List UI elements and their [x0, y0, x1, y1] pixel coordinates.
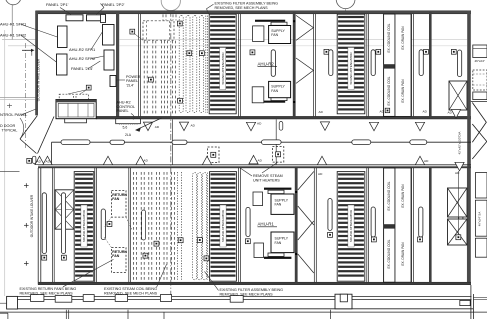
wall stub right [460, 300, 470, 305]
power panel 2L4 box [110, 76, 116, 87]
column bubble C [336, 0, 355, 9]
filter slot columns top [179, 16, 183, 113]
exterior wall band bottom line [15, 308, 473, 310]
equipment tag box 22 [459, 238, 464, 243]
intake slot 1 [42, 193, 46, 254]
AD triangle corridor 4 [136, 156, 149, 165]
svg-text:EX. COOLING COIL: EX. COOLING COIL [387, 76, 391, 105]
svg-text:2LA: 2LA [125, 133, 132, 137]
svg-text:PANEL '2P2': PANEL '2P2' [102, 2, 125, 7]
column bubble B [161, 0, 180, 11]
wall pier 1 [31, 295, 44, 302]
svg-text:EX. COOLING COIL: EX. COOLING COIL [387, 239, 391, 268]
svg-text:AD: AD [144, 158, 149, 162]
damper slot A bottom [328, 199, 332, 231]
svg-text:AD: AD [424, 159, 429, 163]
filter slot columns bottom [193, 173, 197, 280]
svg-text:FAN: FAN [112, 254, 119, 258]
supply fan SF-2a housing [269, 26, 291, 44]
equipment tag box 1 [86, 85, 91, 90]
svg-text:SOUND ATTENUATOR: SOUND ATTENUATOR [349, 209, 353, 242]
sound attenuator SA-top-1 [209, 14, 236, 114]
inlet slot AHU-R1 [246, 207, 250, 236]
corridor slot 5 [352, 140, 371, 145]
housekeeping pad table [56, 100, 96, 119]
mixing plenum xbox 1 [448, 188, 468, 217]
equipment tag box 21 [418, 237, 423, 242]
corridor slot 1 [61, 140, 90, 145]
plenum divider line [138, 14, 140, 116]
grid line vertical left [4, 30, 6, 296]
AD triangle corridor 2 [43, 156, 52, 165]
panel 2P2 box [87, 15, 106, 21]
svg-text:UNIT HEATERS: UNIT HEATERS [253, 179, 280, 183]
top unit top wall [36, 11, 472, 14]
svg-text:FAN: FAN [271, 89, 278, 93]
small slot corridor-left [33, 156, 36, 163]
svg-text:AHU-R2: AHU-R2 [117, 100, 131, 104]
svg-text:AD: AD [423, 109, 428, 113]
bottom unit left wall [37, 168, 39, 285]
divider after attenuator2 top [366, 14, 368, 116]
control panel strip below wall [116, 119, 141, 124]
column line below band 1 [65, 310, 67, 319]
wall pier 3 [83, 295, 94, 302]
fan discharge cone 2b [296, 58, 313, 83]
svg-text:SOUND ATTENUATOR: SOUND ATTENUATOR [82, 209, 86, 242]
supply fan SF-2b shaft bar [255, 101, 285, 103]
divider after fans top [313, 14, 315, 116]
supply fan SF-2a motor [271, 22, 287, 25]
svg-text:PANEL: PANEL [126, 79, 138, 83]
AD triangle 3 [246, 122, 262, 131]
svg-text:EX. DRAIN PAN: EX. DRAIN PAN [401, 184, 405, 208]
divider after fans bottom [313, 168, 315, 282]
fan discharge cone 2a [296, 15, 313, 40]
svg-text:NTROL PANEL: NTROL PANEL [0, 112, 28, 117]
svg-text:EXISTING STEAM COIL BEING: EXISTING STEAM COIL BEING [104, 287, 157, 291]
equipment tag box 6 [250, 50, 255, 55]
AD triangle 2 [179, 122, 195, 131]
svg-text:AD: AD [37, 159, 42, 163]
sound attenuator SA-bot-3 [337, 172, 365, 282]
mixing plenum xbox 2 [448, 219, 468, 245]
column crossing line 1 [172, 119, 174, 164]
filter dashed columns top-left [143, 41, 145, 114]
column line below band 4 [330, 310, 332, 319]
damper slot C top [419, 50, 423, 76]
return fan RF-1 dashed [112, 191, 127, 218]
mech room door leaf 2 [20, 139, 37, 154]
column crossing line 2 [275, 119, 277, 164]
equipment tag box 10 [451, 49, 456, 54]
cooling coil column bottom [384, 168, 395, 282]
steam unit heater 1 dashed [208, 147, 219, 163]
supply fan SF-2a inlet box [253, 26, 264, 42]
svg-text:EX. DRAIN PAN: EX. DRAIN PAN [401, 79, 405, 103]
airflow arrow upper [22, 49, 31, 51]
svg-text:'2L4': '2L4' [126, 84, 134, 88]
column bubble A [5, 0, 21, 5]
equipment tag box 9 [424, 49, 429, 54]
divider after SA-bot-1 [94, 168, 96, 282]
center wall right section top [429, 12, 432, 116]
starter box AHU-R1 SFR2 [57, 54, 68, 75]
fan discharge cone 1a [298, 172, 314, 191]
equipment tag box 19 [328, 232, 333, 237]
starter box AHU-R2 SFR2 [104, 50, 114, 70]
AD triangle 5 [369, 109, 384, 131]
svg-text:AD: AD [319, 110, 324, 114]
wall pier 6 [230, 296, 243, 303]
edge stub line left [0, 170, 20, 172]
AD triangle corridor 8 [415, 156, 429, 165]
filter slot dotted edge [205, 16, 207, 113]
starter box AHU-R2 SFR1 [103, 25, 115, 46]
column line C stub [345, 9, 347, 14]
column line below band 2 [127, 310, 129, 319]
supply fan SF-1a shaft bar [264, 188, 291, 190]
equipment tag box 3 [130, 29, 135, 34]
corridor slot 6 [410, 140, 427, 145]
starter box AHU-R1 SFR1 [58, 26, 68, 48]
intake damper assembly [55, 190, 74, 229]
corridor slot 4 [262, 140, 282, 145]
divider intake [51, 168, 53, 282]
outside air louver 2 [475, 200, 487, 236]
equipment tag box 7 [324, 49, 329, 54]
svg-text:AD: AD [448, 111, 453, 115]
AD triangle corridor 5 [202, 156, 211, 165]
corridor top line [52, 141, 472, 143]
return fan slot [101, 209, 105, 240]
equipment tag box 4b [177, 21, 182, 26]
svg-text:AHU-R1 SFR1: AHU-R1 SFR1 [0, 21, 27, 26]
svg-text:AD: AD [46, 159, 51, 163]
column line A2 dashed [24, 43, 26, 150]
equipment tag box 17b [204, 256, 209, 261]
equipment tag box 15 [154, 241, 159, 246]
svg-text:FAN: FAN [271, 33, 278, 37]
fan discharge cone 1b [298, 221, 314, 240]
svg-text:EXISTING FILTER ASSEMBLY BEING: EXISTING FILTER ASSEMBLY BEING [220, 288, 284, 292]
svg-text:46"x24" SA: 46"x24" SA [478, 212, 482, 227]
svg-text:AHU-R2: AHU-R2 [258, 61, 275, 66]
centerline cross 1 [24, 185, 29, 187]
svg-text:FAN: FAN [275, 241, 282, 245]
starter box small top [101, 15, 106, 23]
svg-text:PANEL '2P1': PANEL '2P1' [46, 2, 69, 7]
AD triangle corridor 6 [249, 155, 263, 164]
pad lower step [65, 119, 87, 123]
outside air louver 1 [475, 173, 487, 198]
fan bulkhead bottom unit [295, 168, 298, 282]
exterior wall band second line [15, 299, 472, 301]
steam area slot [142, 210, 146, 240]
outside air louver 3 [475, 238, 487, 257]
supply fan SF-1b housing [271, 232, 294, 253]
svg-text:PANEL '2L4': PANEL '2L4' [71, 66, 93, 71]
svg-text:SOUND ATTENUATOR: SOUND ATTENUATOR [349, 52, 353, 85]
AD triangle corridor 1 [35, 156, 44, 165]
AD triangle bottom-right inside [455, 162, 464, 175]
AD triangle corridor 3 [103, 156, 112, 165]
equipment tag box 18 [245, 239, 250, 244]
svg-text:OUTDOOR INTAKE LOUVER: OUTDOOR INTAKE LOUVER [37, 58, 41, 101]
relief plenum xbox top [449, 81, 467, 110]
wall pier 7 with inset [335, 294, 352, 309]
svg-text:AD: AD [318, 172, 323, 176]
steam coil dashed columns [133, 172, 135, 281]
bottom unit right wall [466, 168, 468, 282]
match line pair left [0, 96, 38, 98]
corridor slot 2 [110, 140, 125, 144]
mech room door swing 1 [20, 118, 24, 139]
steam coil dashed outline top [143, 21, 174, 40]
svg-text:5,6: 5,6 [123, 126, 128, 130]
svg-text:REMOVED, SEE MECH PLANS: REMOVED, SEE MECH PLANS [220, 293, 274, 297]
equipment tag box 5 [200, 51, 205, 56]
centerline cross 2 [24, 224, 29, 226]
panel 2P1 box [66, 15, 83, 21]
divider after return fans [128, 168, 130, 282]
svg-text:42"x42"x120"DIA: 42"x42"x120"DIA [457, 132, 461, 155]
divider after attenuator top [238, 14, 240, 116]
transition duct top line [471, 101, 487, 103]
svg-text:PANEL: PANEL [117, 109, 129, 113]
svg-text:CONTROL: CONTROL [117, 105, 136, 109]
svg-text:FAN: FAN [112, 197, 119, 201]
equipment tag box 20 [371, 237, 376, 242]
divider after drain top [411, 14, 413, 116]
svg-text:REMOVE STEAM: REMOVE STEAM [253, 174, 283, 178]
column line B dash-dot [170, 11, 172, 296]
transition chevron 2 [472, 124, 487, 159]
damper slot C bottom [419, 207, 423, 237]
svg-text:EXISTING FILTER ASSEMBLY BEING: EXISTING FILTER ASSEMBLY BEING [215, 2, 279, 6]
svg-text:AD: AD [258, 158, 263, 162]
supply fan SF-2a shaft bar [255, 20, 285, 22]
sound attenuator SA-bot-2 [210, 172, 237, 282]
svg-text:EX. DRAIN PAN: EX. DRAIN PAN [401, 26, 405, 50]
damper slot D bottom [459, 207, 463, 237]
divider after SA-bot-2 [237, 168, 239, 282]
grid line horizontal upper [2, 39, 36, 41]
svg-text:OUTDOOR INTAKE LOUVER: OUTDOOR INTAKE LOUVER [30, 194, 34, 237]
supply fan SF-1b shaft bar [264, 257, 291, 259]
svg-text:AD: AD [257, 122, 262, 126]
equipment tag box 14 [143, 253, 148, 258]
svg-text:FAN: FAN [275, 203, 282, 207]
svg-text:TYPICAL: TYPICAL [2, 128, 18, 132]
transition chevron 1 [472, 103, 486, 143]
expansion joint right [470, 285, 472, 319]
sound attenuator SA-top-2 [337, 14, 365, 114]
fan bulkhead top unit [293, 12, 296, 116]
AD triangle top-right [448, 110, 461, 119]
corridor bottom wall [38, 164, 471, 166]
centerline cross 3 [24, 262, 29, 264]
equipment tag box 4 [187, 51, 192, 56]
damper slot D top [458, 50, 462, 77]
svg-text:SOUND ATTENUATOR: SOUND ATTENUATOR [221, 52, 225, 85]
wall pier 4 [115, 295, 127, 302]
mech room right wall [116, 12, 119, 120]
AD triangle 4 [319, 110, 330, 131]
equipment tag box 17 [197, 238, 202, 243]
damper slot A top [329, 50, 333, 76]
tag box on wall [385, 108, 390, 113]
svg-text:REMOVED, SEE MECH PLANS: REMOVED, SEE MECH PLANS [20, 292, 74, 296]
equipment tag box 4c [178, 98, 183, 103]
exterior wall band lower line [0, 311, 487, 313]
wall corner steps [0, 312, 8, 314]
equipment tag box corridor-left [27, 158, 32, 163]
AD triangle 1 [143, 122, 159, 131]
AD triangle corridor 7 [317, 156, 326, 176]
AD arrow to 2LA [136, 118, 162, 130]
supply louver top 3 [473, 92, 487, 100]
mech room left wall [35, 11, 38, 116]
corridor left end [51, 142, 53, 165]
return fan RF-2 dashed [112, 248, 127, 273]
svg-text:46"x24": 46"x24" [475, 59, 485, 63]
bottom unit bottom wall [38, 282, 471, 285]
equipment tag box 16 [178, 238, 183, 243]
band lines right extension [473, 297, 487, 299]
column line below band 3 [163, 312, 165, 319]
top unit bottom wall [96, 116, 471, 119]
intake slot 2 [61, 193, 65, 254]
svg-text:EXISTING RETURN FANS BEING: EXISTING RETURN FANS BEING [20, 287, 77, 291]
equipment tag box 12 [61, 255, 66, 260]
svg-text:AD: AD [455, 171, 460, 175]
wall corner block left [7, 296, 18, 309]
svg-text:AHU-R1: AHU-R1 [258, 222, 275, 227]
supply fan SF-2b motor [271, 98, 287, 101]
removed equipment dashed pads [59, 94, 73, 99]
divider after drain bottom [411, 168, 413, 282]
supply louver top 1 [473, 45, 487, 58]
wall pier 2 [55, 296, 72, 303]
supply fan SF-2b housing [269, 81, 291, 97]
drain pan column top [395, 14, 411, 116]
corridor slot 3 [172, 140, 187, 144]
supply fan SF-1a inlet box [253, 192, 263, 206]
grid line horizontal lower [8, 45, 36, 47]
svg-text:REMOVED, SEE MECH PLANS: REMOVED, SEE MECH PLANS [215, 6, 269, 10]
return fan dashed leaders [104, 217, 112, 227]
filter dotted pair left [177, 172, 179, 281]
AD triangle 5b [415, 109, 427, 131]
supply fan SF-1b inlet box [254, 243, 264, 258]
steam unit heater 2 dashed [272, 147, 283, 163]
cooling coil column top [384, 14, 395, 116]
svg-text:SOUND ATTENUATOR: SOUND ATTENUATOR [221, 209, 225, 242]
divider after SA-bot-3 [366, 168, 368, 282]
svg-text:EX. COOLING COIL: EX. COOLING COIL [387, 181, 391, 210]
svg-text:AD: AD [155, 125, 160, 129]
small tick left upper [7, 105, 12, 107]
supply fan SF-2b inlet box [252, 87, 264, 103]
column line A [11, 5, 13, 40]
exterior wall band top line [15, 296, 472, 298]
xbox connector line [457, 171, 459, 234]
sound attenuator SA-bot-1 [74, 172, 94, 282]
mech room door leaf 3 [38, 117, 55, 154]
equipment tag box 11 [42, 255, 47, 260]
small slot below wall [279, 122, 283, 131]
equipment tag box 8 [376, 49, 381, 54]
inlet vane slot top unit [271, 50, 275, 77]
damper slot B bottom [371, 207, 375, 237]
svg-text:AD: AD [191, 124, 196, 128]
center wall right section bottom [429, 168, 432, 282]
supply fan SF-1a motor [268, 190, 284, 193]
damper slot B top [371, 50, 375, 76]
equipment tag box 13 [107, 222, 112, 227]
svg-text:D DOOR: D DOOR [0, 124, 15, 128]
svg-text:AD: AD [380, 109, 385, 113]
equipment tag box 2 [149, 77, 154, 82]
svg-text:EX. DRAIN PAN: EX. DRAIN PAN [401, 242, 405, 266]
top unit right wall [467, 11, 471, 285]
svg-text:REMOVED, SEE MECH PLANS: REMOVED, SEE MECH PLANS [104, 292, 158, 296]
svg-text:EX. COOLING COIL: EX. COOLING COIL [387, 23, 391, 52]
wall pier 5 [160, 295, 171, 302]
supply louver top 2 dashed [473, 70, 487, 90]
drain pan column bottom [395, 168, 411, 282]
supply fan SF-1b motor [268, 253, 284, 256]
supply fan SF-1a housing [271, 194, 294, 214]
mech room door leaf 1 [20, 116, 37, 139]
